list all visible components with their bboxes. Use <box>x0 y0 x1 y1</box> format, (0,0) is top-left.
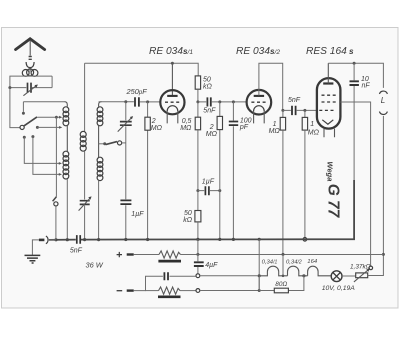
node terminal on bus <box>303 238 307 242</box>
wire grid line y110 <box>283 109 317 111</box>
tap wire 2 <box>36 126 39 129</box>
wire grid top left <box>23 101 64 103</box>
var cap arrow <box>79 198 91 211</box>
ballast slab <box>158 260 181 263</box>
minus terminal pin <box>127 289 134 291</box>
centre tap wire <box>282 254 284 275</box>
node 2M2 top <box>218 100 221 103</box>
wire to var cap <box>84 151 86 199</box>
rail plate supply y63 <box>85 63 199 76</box>
wire V2 plate loop <box>259 63 283 110</box>
V2 cathode dome <box>254 106 265 111</box>
wire bus drop to filament <box>258 239 260 275</box>
switch arm <box>24 117 37 126</box>
terminal socket minus <box>196 289 200 293</box>
resistor 1M right <box>304 110 306 117</box>
svg-text:MΩ: MΩ <box>180 125 192 132</box>
wire 10nF to bus corner <box>353 86 355 239</box>
wire jack down <box>368 116 384 276</box>
V3 filament legs <box>324 129 335 138</box>
resistor 50k decoupling <box>197 191 199 211</box>
minus series resistor zigzag <box>146 290 159 292</box>
node box corner <box>8 86 11 89</box>
plus terminal pin <box>127 253 134 255</box>
capacitor 1uF bridge <box>198 190 220 192</box>
node output grid <box>303 109 306 112</box>
node filament left <box>258 274 261 277</box>
svg-text:Wega: Wega <box>326 162 335 182</box>
antenna coil L2 lower <box>63 151 69 157</box>
svg-text:2: 2 <box>209 124 214 131</box>
wire 0,5M down <box>197 130 199 191</box>
antenna plug cup <box>26 62 34 68</box>
filament 0,34/2 <box>288 266 308 276</box>
svg-text:164: 164 <box>307 259 318 265</box>
node bridge R <box>218 189 221 192</box>
svg-text:pF: pF <box>239 124 249 131</box>
svg-text:1,37kΩ: 1,37kΩ <box>350 264 371 271</box>
node 4uF rail <box>196 253 199 256</box>
svg-text:G 77: G 77 <box>325 184 342 219</box>
wire socket to filament string <box>200 275 258 277</box>
tap wire 1 <box>37 116 60 118</box>
svg-text:MΩ: MΩ <box>269 128 281 135</box>
ballast resistor zigzag <box>159 251 181 258</box>
wire 50k to node <box>197 89 199 102</box>
wire to coil <box>29 68 31 72</box>
wire screen tap <box>340 102 370 266</box>
wire grid line y102 left <box>99 101 161 103</box>
resistor 80ohm <box>259 276 304 291</box>
node 100pF top <box>232 100 235 103</box>
V2 filament legs <box>254 111 265 123</box>
triode V2 RE034s/2 envelope <box>247 90 272 115</box>
V3 anode lead <box>327 63 329 83</box>
node coupling <box>196 100 199 103</box>
svg-text:kΩ: kΩ <box>203 84 213 91</box>
antenna tank box wires <box>10 76 52 88</box>
tap wire 4 <box>33 137 60 175</box>
shorting switch arm <box>106 142 117 145</box>
capacitor 250pF <box>135 97 139 106</box>
contact node B <box>31 135 34 138</box>
tuning cap arrow <box>118 118 132 132</box>
capacitor 5nF coupling 1 <box>207 97 210 106</box>
V3 anode <box>323 82 333 84</box>
svg-text:250pF: 250pF <box>126 87 148 96</box>
wire grid coil mid <box>98 126 100 157</box>
wire lamp right <box>342 275 356 277</box>
wire plus to resistor <box>134 254 159 256</box>
antenna coil L2 upper <box>64 102 67 107</box>
svg-text:1: 1 <box>310 121 314 128</box>
wire grid line y102 mid <box>198 101 247 103</box>
svg-text:5nF: 5nF <box>70 247 83 254</box>
node centre tap rail <box>282 253 285 256</box>
wire feedback column top <box>84 63 86 131</box>
node plate V1 <box>171 62 174 65</box>
trimmer arrow <box>23 86 36 96</box>
svg-text:L: L <box>381 96 385 105</box>
speaker jack bottom <box>379 112 387 115</box>
svg-text:5nF: 5nF <box>288 97 301 104</box>
svg-text:36 W: 36 W <box>86 261 104 270</box>
svg-text:1µF: 1µF <box>131 211 144 218</box>
node bridge L <box>196 189 199 192</box>
label plus <box>117 252 122 257</box>
svg-text:RE 034s/2: RE 034s/2 <box>236 46 280 57</box>
antenna break marks <box>29 57 32 60</box>
heater supply rail <box>181 254 384 256</box>
svg-text:0,34/1: 0,34/1 <box>262 260 278 266</box>
wire jack to bus <box>49 239 56 241</box>
filament 0,34/1 <box>259 266 287 276</box>
capacitor 5nF coupling 2 <box>292 106 296 115</box>
wire grid coil to bus <box>98 181 100 240</box>
svg-text:1µF: 1µF <box>202 179 215 186</box>
V1 cathode dome <box>167 106 178 111</box>
wire plate lead V1 <box>171 63 173 95</box>
wire switch column <box>55 117 57 197</box>
node divider <box>382 253 385 256</box>
svg-text:MΩ: MΩ <box>308 129 320 136</box>
minus resistor slab <box>158 295 181 298</box>
node lower link <box>258 289 261 292</box>
rheostat arrow <box>354 270 368 282</box>
svg-text:kΩ: kΩ <box>183 217 193 224</box>
shorting switch contact <box>99 143 104 145</box>
svg-text:1: 1 <box>273 121 277 128</box>
node grid R <box>146 100 149 103</box>
resistor 0,5M <box>197 102 199 117</box>
wire coil to bus <box>66 179 68 239</box>
speaker jack top <box>379 91 387 94</box>
V1 grid (dashed) <box>165 101 180 103</box>
svg-text:MΩ: MΩ <box>206 131 218 138</box>
svg-text:5nF: 5nF <box>203 108 216 115</box>
band switch S1 pivot <box>20 125 24 129</box>
wire coil mid <box>66 126 68 151</box>
V1 filament legs <box>167 111 178 123</box>
capacitor 100pF <box>232 102 234 240</box>
contact node A <box>23 136 26 139</box>
main bus (chassis line) <box>49 180 354 240</box>
capacitor 10nF <box>353 63 355 80</box>
resistor 50k anode load <box>195 76 200 89</box>
V3 screen grid dashed <box>322 94 337 96</box>
resistor 1M left <box>282 110 284 117</box>
wire zigzag to socket <box>180 290 196 292</box>
tap wire 3 <box>24 137 59 163</box>
wire rheostat right <box>368 275 384 277</box>
svg-text:RE 034s/1: RE 034s/1 <box>149 46 193 57</box>
resistor 2M interstage <box>219 102 221 240</box>
svg-text:RES 164 s: RES 164 s <box>306 46 354 57</box>
label minus <box>117 290 123 292</box>
resistor 2M grid leak <box>147 102 149 240</box>
ground jack <box>46 236 48 244</box>
triode V1 RE034s/1 envelope <box>160 90 184 114</box>
wire 1M left down <box>282 130 284 254</box>
mains switch S2 <box>53 197 57 201</box>
svg-text:80Ω: 80Ω <box>275 281 287 288</box>
svg-text:4µF: 4µF <box>205 262 218 269</box>
wire lower link <box>200 278 259 291</box>
capacitor 5nF in bus <box>77 235 80 244</box>
svg-text:MΩ: MΩ <box>151 125 163 132</box>
svg-text:50: 50 <box>203 76 211 83</box>
grid coil L4 lower <box>97 157 103 163</box>
node filament mid <box>302 274 305 277</box>
node 10nF top <box>353 62 356 65</box>
wire to ground <box>32 240 39 255</box>
ground symbol <box>25 255 41 263</box>
capacitor 1uF series <box>120 200 131 204</box>
dial lamp <box>331 271 342 282</box>
capacitor minus branch <box>164 272 168 280</box>
svg-text:0,34/2: 0,34/2 <box>286 260 302 266</box>
switch contact stub <box>22 102 24 112</box>
V3 space charge grid dashed <box>322 101 339 103</box>
wire antenna stem <box>29 41 31 56</box>
antenna coupling coil L1 <box>22 70 29 77</box>
filament 164 <box>308 266 332 276</box>
tuning capacitor variable <box>120 122 132 126</box>
V2 grid (dashed) <box>251 101 266 103</box>
svg-text:nF: nF <box>362 83 371 90</box>
wire 1M right down <box>304 130 306 237</box>
wire 50k2 to bus <box>197 222 199 240</box>
wire minus branch <box>134 276 196 290</box>
rheostat 1,37k body <box>356 273 368 278</box>
V2 anode <box>254 95 264 97</box>
grid coil L4 upper <box>99 102 102 107</box>
node V2 plate / 1M <box>281 109 284 112</box>
feedback coil L3 <box>80 131 86 137</box>
capacitor 4uF <box>197 239 199 273</box>
wire switch to bus <box>55 206 57 239</box>
node tuning top <box>124 100 127 103</box>
variable capacitor C-reaction <box>80 201 90 205</box>
antenna trimmer capacitor <box>28 83 32 93</box>
V3 filament vee <box>322 120 333 124</box>
wire varcap to bus <box>84 206 86 240</box>
wire box down to switch <box>10 88 20 128</box>
bus junction nodes <box>54 238 57 241</box>
ground plug pin <box>39 239 45 242</box>
V1 anode <box>167 95 177 97</box>
wire tuning column <box>125 102 127 240</box>
wiper terminal <box>369 266 373 270</box>
antenna <box>16 39 45 50</box>
terminal socket 4uF <box>196 274 200 278</box>
V3 control grid dashed <box>319 109 334 111</box>
svg-text:10V, 0,19A: 10V, 0,19A <box>322 285 356 292</box>
rail output plate y63 <box>328 63 383 88</box>
pentode V3 RES164s envelope <box>317 78 341 129</box>
